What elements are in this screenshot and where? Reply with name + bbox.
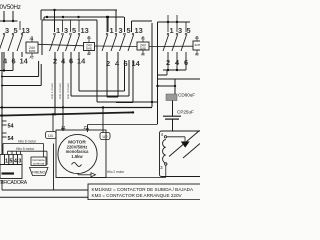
svg-text:Hilo 1 motor: Hilo 1 motor (50, 83, 54, 99)
svg-text:Hilo 5 motor: Hilo 5 motor (16, 147, 35, 151)
svg-text:TIFICADORA: TIFICADORA (0, 180, 28, 186)
svg-text:1: 1 (170, 26, 174, 35)
svg-text:FRENO: FRENO (32, 170, 45, 174)
svg-text:13: 13 (135, 26, 143, 35)
svg-text:14: 14 (20, 57, 29, 66)
svg-text:5: 5 (10, 159, 13, 165)
svg-text:3: 3 (64, 26, 68, 35)
svg-text:3: 3 (5, 26, 9, 35)
svg-text:3: 3 (18, 159, 21, 165)
svg-text:1: 1 (56, 26, 60, 35)
svg-text:1: 1 (110, 26, 114, 35)
svg-text:3: 3 (119, 26, 123, 35)
svg-text:3: 3 (178, 26, 182, 35)
svg-text:54: 54 (8, 136, 15, 142)
svg-text:Hilo 3 motor: Hilo 3 motor (58, 83, 62, 99)
svg-text:4: 4 (14, 159, 17, 165)
svg-text:A1: A1 (30, 37, 34, 41)
svg-text:A2: A2 (195, 53, 199, 57)
svg-text:50/60: 50/60 (29, 49, 36, 53)
svg-text:5: 5 (127, 26, 131, 35)
svg-text:U1: U1 (48, 133, 54, 138)
svg-text:1.5kw: 1.5kw (71, 154, 83, 159)
svg-text:14: 14 (77, 57, 86, 66)
svg-text:Hilo 2 motor: Hilo 2 motor (107, 170, 125, 174)
svg-text:220V: 220V (194, 43, 200, 47)
svg-text:0V50Hz: 0V50Hz (0, 4, 21, 11)
svg-text:KM1/KM2 = CONTACTOR DE SUBIDA: KM1/KM2 = CONTACTOR DE SUBIDA / BAJADA (92, 187, 194, 192)
svg-text:50/60: 50/60 (86, 48, 93, 51)
svg-text:1: 1 (5, 159, 8, 165)
svg-text:5: 5 (14, 26, 18, 35)
svg-text:U2: U2 (102, 134, 108, 139)
svg-text:A2: A2 (30, 56, 34, 60)
svg-text:5: 5 (187, 26, 191, 35)
svg-text:CP25uF: CP25uF (177, 110, 194, 115)
svg-text:Hilo 6 motor: Hilo 6 motor (18, 140, 37, 144)
svg-text:Hilo 4 motor: Hilo 4 motor (66, 83, 70, 99)
svg-text:KM3 = CONTACTOR DE ARRANQUE 22: KM3 = CONTACTOR DE ARRANQUE 220V (92, 193, 183, 198)
svg-text:5: 5 (72, 26, 76, 35)
svg-text:continua: continua (33, 162, 45, 166)
svg-text:54: 54 (8, 124, 15, 130)
svg-text:13: 13 (81, 26, 89, 35)
svg-text:CD80uF: CD80uF (178, 93, 195, 98)
svg-text:6: 6 (12, 57, 16, 66)
